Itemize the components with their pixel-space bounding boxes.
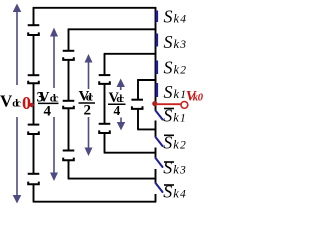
svg-text:4: 4 bbox=[180, 188, 186, 200]
svg-text:0: 0 bbox=[22, 93, 31, 113]
svg-text:k0: k0 bbox=[193, 92, 204, 103]
svg-text:k: k bbox=[173, 162, 179, 176]
svg-text:S: S bbox=[164, 82, 173, 102]
svg-text:V: V bbox=[0, 92, 13, 111]
svg-text:k: k bbox=[174, 62, 180, 76]
svg-text:S: S bbox=[164, 57, 173, 77]
svg-text:2: 2 bbox=[180, 139, 186, 151]
svg-text:k: k bbox=[174, 37, 180, 51]
svg-text:2: 2 bbox=[84, 103, 92, 119]
svg-text:S: S bbox=[164, 32, 173, 52]
svg-text:k: k bbox=[174, 87, 180, 101]
svg-text:4: 4 bbox=[114, 103, 121, 118]
svg-text:4: 4 bbox=[44, 104, 52, 120]
svg-text:S: S bbox=[163, 157, 172, 177]
svg-text:3: 3 bbox=[179, 164, 186, 176]
svg-text:4: 4 bbox=[180, 14, 186, 26]
svg-text:3: 3 bbox=[179, 39, 186, 51]
svg-text:k: k bbox=[173, 137, 179, 151]
svg-text:k: k bbox=[173, 111, 179, 125]
svg-text:2: 2 bbox=[180, 64, 186, 76]
svg-text:dc: dc bbox=[12, 99, 21, 110]
svg-text:S: S bbox=[164, 7, 173, 27]
svg-text:1: 1 bbox=[180, 113, 186, 125]
svg-text:k: k bbox=[173, 186, 179, 200]
svg-text:k: k bbox=[174, 12, 180, 26]
